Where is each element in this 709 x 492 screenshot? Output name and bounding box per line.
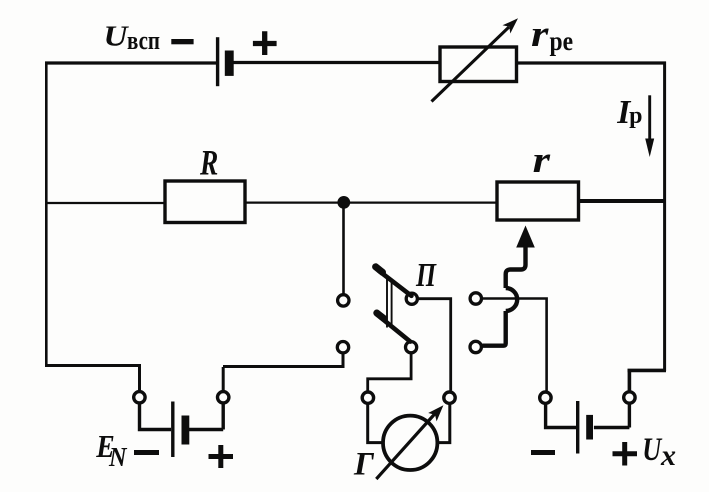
rheostat r_pe: body box: [440, 47, 517, 82]
wire: left jack down to galvanometer: [368, 404, 384, 443]
switch P: lower blade: [380, 317, 411, 342]
svg-text:ре: ре: [550, 26, 574, 56]
svg-text:R: R: [199, 143, 218, 183]
svg-text:П: П: [415, 257, 437, 294]
terminal circle: switch upper-left contact: [338, 295, 349, 306]
galvanometer G: needle arrow: [376, 413, 436, 480]
wiper wire: hop over wire to U_x: [506, 288, 518, 311]
battery E_N: long plate: [171, 402, 174, 458]
wire: switch upper-right contact to galvanometer right jack: [418, 299, 451, 391]
wire: U_x right terminal up to right vertical: [628, 370, 667, 391]
wire: E_N battery to right terminal: [189, 404, 223, 430]
svg-text:U: U: [642, 432, 662, 468]
resistor r: body box: [497, 182, 579, 220]
svg-text:всп: всп: [127, 26, 160, 55]
wiper wire: down to lower jack: [482, 311, 505, 346]
wire: middle horizontal, left vertical to resistor R: [45, 202, 165, 204]
battery U_x: short thick plate: [586, 415, 593, 440]
label minus (U_x): [531, 450, 555, 455]
svg-text:x: x: [660, 439, 676, 472]
wire: bottom-left run from left vertical to E_N left terminal: [45, 366, 140, 391]
terminal circle: galvanometer left jack: [362, 392, 373, 403]
svg-text:Г: Г: [353, 447, 375, 483]
wire: U_x left terminal down to battery: [546, 404, 576, 428]
resistor R: body box: [165, 181, 245, 223]
wire: top horizontal, battery plus plate to rheostat r_pe: [233, 61, 440, 64]
wire: E_N left terminal to battery: [140, 404, 172, 430]
wire: top horizontal, rheostat r_pe to top-right corner: [516, 61, 666, 64]
label minus (E_N): [134, 450, 159, 455]
switch P: insulating link between blades: [387, 279, 392, 328]
svg-text:r: r: [531, 13, 549, 54]
terminal circle: U_x left: [540, 392, 551, 403]
label plus (U_vsp): [253, 31, 277, 55]
galvanometer G: body circle: [383, 416, 437, 470]
switch P: upper blade: [379, 271, 412, 296]
switch P: wire junction node to upper-left contact: [342, 205, 345, 294]
svg-text:N: N: [108, 442, 128, 472]
wire: left vertical branch: [45, 62, 48, 367]
battery E_N: short thick plate: [182, 416, 190, 445]
svg-text:r: r: [533, 139, 551, 180]
svg-text:U: U: [104, 21, 130, 53]
wire: lower-left contact down to E_N horizontal run: [223, 354, 343, 367]
wire: right vertical branch: [663, 62, 666, 372]
terminal circle: E_N right: [218, 392, 229, 403]
wire: upper jack to U_x branch (horizontal, crossed by hop): [482, 299, 547, 391]
junction node (dot) on middle wire: [337, 196, 350, 209]
wire: middle horizontal thick, r to right vertical: [579, 199, 667, 203]
wire: U_x battery to right terminal: [594, 404, 630, 428]
terminal circle: U_x right: [624, 392, 635, 403]
rheostat r_pe: diagonal arrow: [432, 27, 510, 102]
terminal circle: switch lower-right contact: [406, 342, 417, 353]
battery U_x: long plate: [576, 401, 579, 454]
terminal circle: wiper upper jack: [470, 293, 481, 304]
terminal circle: wiper lower jack: [470, 341, 481, 352]
label plus (E_N): [209, 445, 234, 468]
terminal circle: switch lower-left contact: [337, 342, 348, 353]
label minus (U_vsp): [171, 39, 193, 44]
battery U_vsp: long (+) plate: [216, 37, 219, 86]
wire: middle horizontal, R to junction node to resistor r: [245, 201, 497, 203]
wire: E_N right terminal riser to switch run: [222, 367, 225, 391]
wire: top horizontal, left corner to battery Uvsp minus plate: [45, 61, 216, 64]
terminal circle: switch upper-right contact: [406, 293, 417, 304]
arrow I_p (current direction, down): [648, 95, 651, 144]
wire: switch lower-right contact to galvanometer left jack: [368, 353, 411, 390]
svg-text:р: р: [629, 103, 642, 129]
terminal circle: E_N left: [134, 392, 145, 403]
battery U_vsp: short thick plate: [225, 51, 234, 76]
label plus (U_x): [613, 442, 638, 466]
wire: right jack down to galvanometer: [438, 404, 450, 443]
wiper arrow of r (points up into r): [516, 226, 535, 248]
terminal circle: galvanometer right jack: [444, 392, 455, 403]
